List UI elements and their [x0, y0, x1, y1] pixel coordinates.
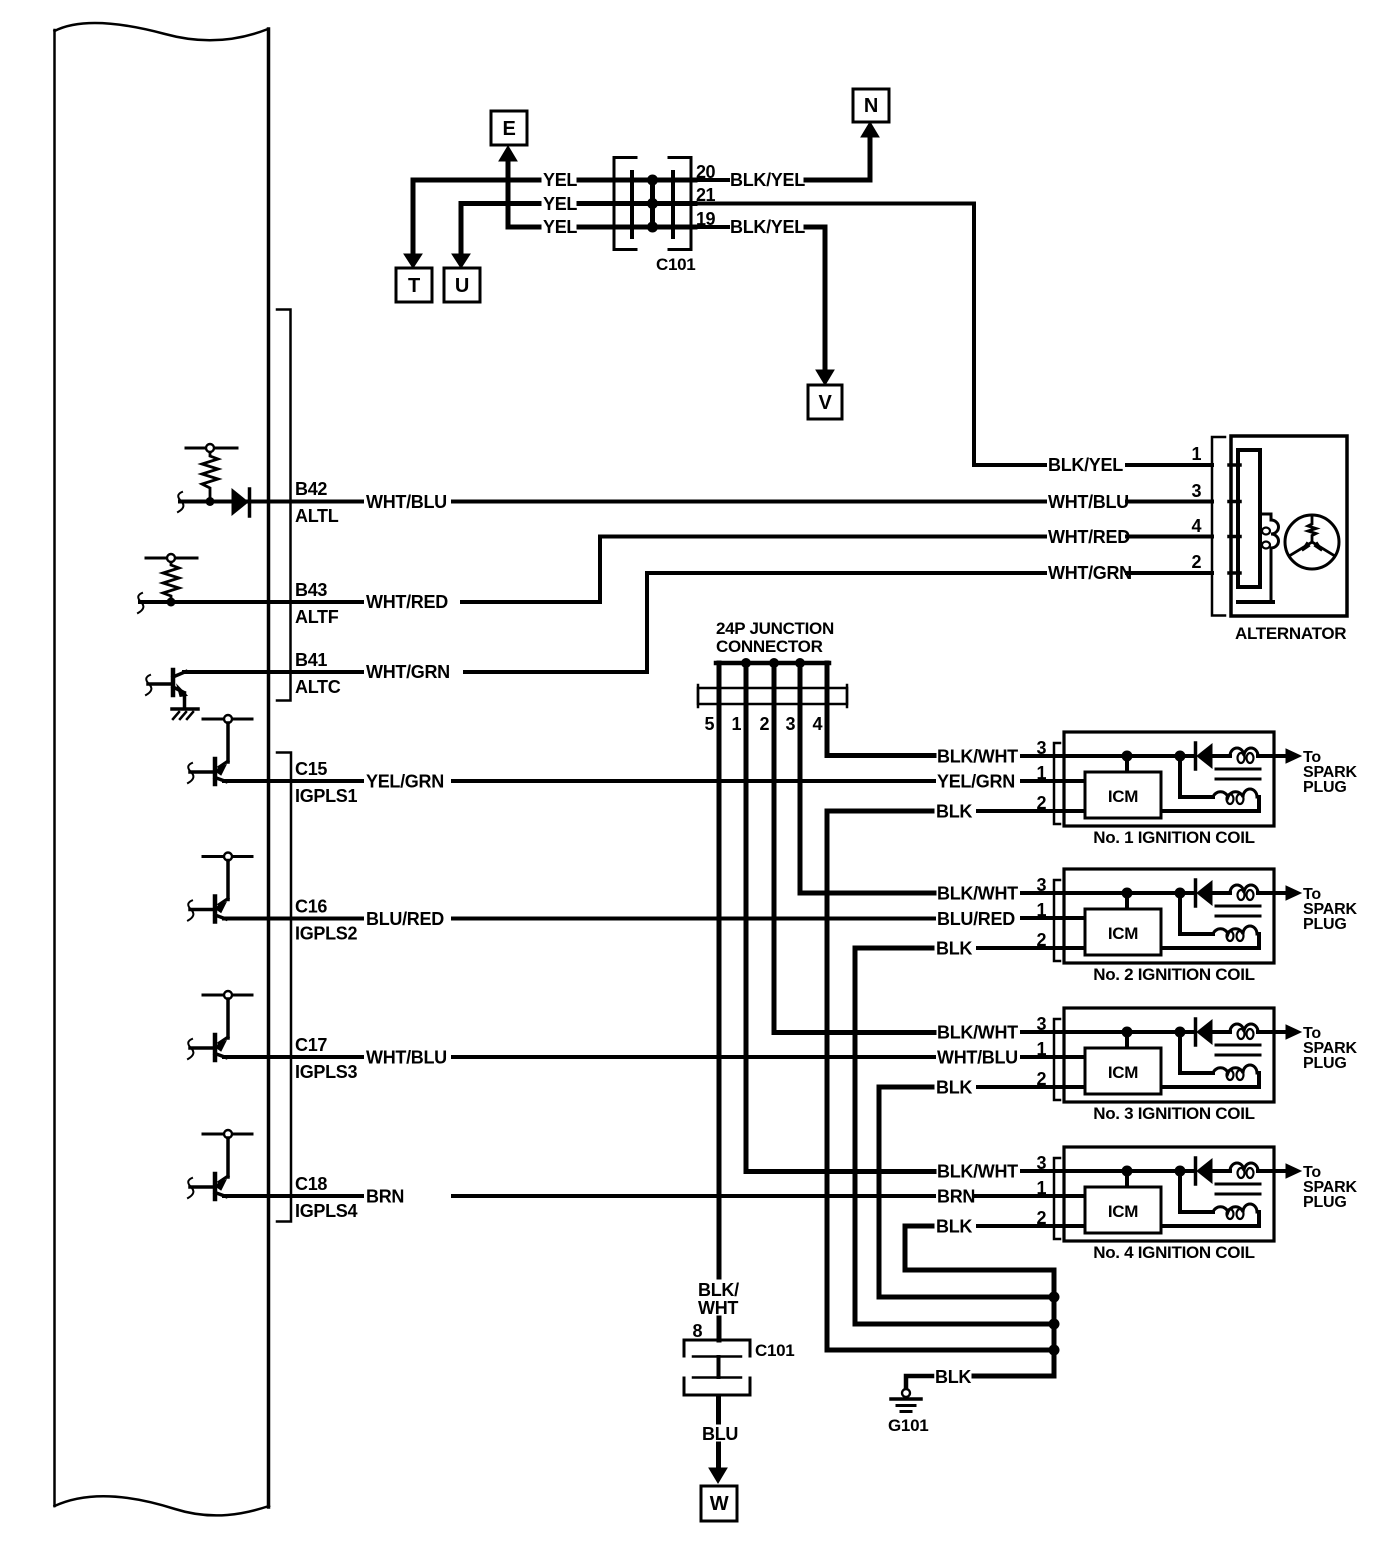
svg-text:No. 1 IGNITION COIL: No. 1 IGNITION COIL — [1093, 828, 1254, 847]
svg-text:BLK: BLK — [936, 1078, 972, 1098]
pin C17 IGPLS3 labels — [295, 1035, 358, 1082]
svg-text:BLK/: BLK/ — [698, 1280, 739, 1300]
connector N box — [853, 89, 889, 122]
svg-text:5: 5 — [704, 714, 714, 734]
24P JUNCTION CONNECTOR labels — [716, 619, 834, 656]
svg-text:BLU/RED: BLU/RED — [937, 909, 1015, 929]
arrow up into E — [499, 146, 517, 161]
ECM connector bracket C (C15-C18 group) — [277, 753, 291, 1222]
bus junction dots — [1049, 1292, 1060, 1303]
stator (three-phase) symbol — [1285, 515, 1339, 569]
svg-text:C18: C18 — [295, 1174, 327, 1194]
svg-text:No. 2 IGNITION COIL: No. 2 IGNITION COIL — [1093, 965, 1254, 984]
svg-text:YEL/GRN: YEL/GRN — [366, 772, 444, 792]
svg-text:24P JUNCTION: 24P JUNCTION — [716, 619, 834, 638]
svg-text:BLK/YEL: BLK/YEL — [730, 170, 805, 190]
svg-text:BLK/WHT: BLK/WHT — [937, 1162, 1018, 1182]
svg-text:C101: C101 — [656, 255, 695, 274]
ground bus vertical — [1052, 1270, 1057, 1376]
wire label BLK/WHT (junction pin 5 wire) — [698, 1280, 739, 1318]
wire YEL (pin 20 branch, to connector T) — [413, 180, 539, 257]
connector U box — [444, 268, 480, 302]
svg-text:CONNECTOR: CONNECTOR — [716, 637, 823, 656]
svg-text:3: 3 — [785, 714, 795, 734]
ECM module torn strip — [55, 23, 270, 1515]
svg-text:1: 1 — [1191, 444, 1201, 464]
svg-text:WHT/BLU: WHT/BLU — [937, 1048, 1018, 1068]
svg-text:C16: C16 — [295, 897, 327, 917]
transistor Q2 (C15 IGPLS1 driver, PNP) — [188, 715, 362, 784]
connector V box — [808, 385, 842, 419]
connector T box — [396, 268, 432, 302]
wire YEL/GRN long run to ignition coil pin 1 — [453, 779, 934, 783]
svg-text:C17: C17 — [295, 1035, 327, 1055]
pin 19 wire stub — [693, 225, 728, 229]
wire BLK/YEL down to connector V — [806, 227, 825, 370]
svg-text:3: 3 — [1191, 481, 1201, 501]
svg-text:4: 4 — [1191, 516, 1201, 536]
svg-text:8: 8 — [692, 1321, 702, 1341]
wire BLK return coil 3 — [879, 1087, 1054, 1297]
alternator pin numbers 1/3/4/2 — [1191, 444, 1201, 572]
connector C101 (engine harness, pins 20/21/19) — [614, 158, 695, 275]
wire YEL (pin 19 branch, to connector E) — [508, 159, 539, 227]
junction connector strip — [698, 685, 847, 707]
wire BLK/YEL to connector N — [806, 137, 870, 180]
svg-text:BLK/YEL: BLK/YEL — [730, 217, 805, 237]
ignition coil unit No.1 (with ICM) — [978, 732, 1357, 826]
wire BLK return coil 4 — [905, 1226, 1054, 1270]
wire BRN long run to ignition coil pin 1 — [453, 1194, 934, 1198]
pin C16 IGPLS2 labels — [295, 897, 358, 944]
svg-text:ALTF: ALTF — [295, 607, 339, 627]
svg-text:BLK: BLK — [936, 802, 972, 822]
transistor Q1 (B41 driver, NPN) — [146, 670, 187, 708]
svg-text:E: E — [502, 118, 515, 140]
wire WHT/GRN run with step up to alternator pin 2 — [465, 573, 1045, 672]
pin B42 ALTL labels — [295, 479, 339, 526]
svg-text:WHT/BLU: WHT/BLU — [1048, 492, 1129, 512]
junction wire 2 to No.3 coil — [774, 663, 934, 1033]
svg-text:2: 2 — [759, 714, 769, 734]
svg-text:BLK: BLK — [936, 939, 972, 959]
arrow down into V — [816, 370, 834, 385]
arrow up into N — [861, 122, 879, 137]
junction pin numbers 5 1 2 3 4 — [704, 714, 822, 734]
svg-text:ALTC: ALTC — [295, 677, 341, 697]
pin 20 wire stub — [693, 178, 728, 182]
transistor Q3 (C16 IGPLS2 driver, PNP) — [188, 853, 362, 922]
svg-text:ALTERNATOR: ALTERNATOR — [1235, 624, 1346, 643]
node junction dot B42 — [206, 497, 215, 506]
wire BLK return coil 1 — [827, 811, 1054, 1350]
pin B41 ALTC labels — [295, 650, 341, 697]
svg-text:C15: C15 — [295, 759, 327, 779]
svg-text:W: W — [710, 1493, 729, 1515]
arrow down into T — [404, 254, 422, 268]
wire WHT/BLU long run to alternator pin 3 — [453, 500, 1045, 504]
svg-text:No. 3 IGNITION COIL: No. 3 IGNITION COIL — [1093, 1104, 1254, 1123]
connector C101 (bottom, pin 8) — [684, 1340, 794, 1395]
svg-text:BLK/WHT: BLK/WHT — [937, 747, 1018, 767]
svg-text:BRN: BRN — [366, 1187, 404, 1207]
wire BLK to ground G101 — [974, 1374, 1054, 1379]
svg-text:BLK/WHT: BLK/WHT — [937, 1023, 1018, 1043]
arrow down into W — [709, 1468, 727, 1483]
svg-text:BLK/WHT: BLK/WHT — [937, 884, 1018, 904]
transistor Q4 (C17 IGPLS3 driver, PNP) — [188, 991, 362, 1060]
wire B42 left segment with break squiggle — [178, 492, 362, 512]
resistor (B42 pull-up) — [186, 444, 237, 499]
ignition coil unit No.2 (with ICM) — [978, 869, 1357, 963]
svg-text:U: U — [455, 275, 469, 297]
svg-text:WHT/BLU: WHT/BLU — [366, 492, 447, 512]
diode D1 on B42 wire — [232, 489, 250, 516]
junction wire 4 to No.1 coil — [827, 663, 934, 756]
svg-text:BLK: BLK — [936, 1217, 972, 1237]
svg-text:BLK: BLK — [935, 1367, 971, 1387]
svg-text:T: T — [408, 275, 420, 297]
svg-text:BLU: BLU — [702, 1424, 738, 1444]
svg-text:4: 4 — [812, 714, 822, 734]
svg-text:WHT/GRN: WHT/GRN — [366, 662, 450, 682]
svg-text:IGPLS3: IGPLS3 — [295, 1062, 358, 1082]
svg-text:IGPLS1: IGPLS1 — [295, 786, 358, 806]
ECM connector bracket B (B42/B43/B41 group) — [277, 310, 291, 701]
svg-text:IGPLS2: IGPLS2 — [295, 924, 358, 944]
junction bus bar — [716, 661, 829, 666]
svg-text:G101: G101 — [888, 1416, 928, 1435]
alternator internal pin stubs — [1229, 465, 1240, 573]
wire BRN stub (coil 4 pin 1, short label) — [976, 1194, 1026, 1198]
wire BLK return coil 2 — [855, 948, 1054, 1324]
wire BLU to connector W — [716, 1396, 721, 1422]
svg-text:No. 4 IGNITION COIL: No. 4 IGNITION COIL — [1093, 1243, 1254, 1262]
field (rotor) winding — [1238, 514, 1279, 602]
svg-text:WHT/RED: WHT/RED — [366, 592, 448, 612]
pin 21 wire BLK/YEL long run down to alternator pin 1 — [693, 204, 1045, 466]
svg-text:YEL/GRN: YEL/GRN — [937, 772, 1015, 792]
svg-text:IGPLS4: IGPLS4 — [295, 1201, 358, 1221]
wire WHT/BLU long run to ignition coil pin 1 — [453, 1055, 934, 1059]
wire BLU/RED long run to ignition coil pin 1 — [453, 917, 934, 921]
connector W box — [701, 1486, 737, 1521]
ignition coil unit No.3 (with ICM) — [978, 1008, 1357, 1102]
svg-text:YEL: YEL — [543, 170, 577, 190]
alternator connector bracket — [1212, 437, 1225, 616]
ground (chassis) at B41 emitter — [172, 709, 198, 719]
voltage regulator block — [1238, 450, 1260, 587]
svg-text:BLU/RED: BLU/RED — [366, 909, 444, 929]
svg-text:V: V — [818, 392, 832, 414]
ground G101 symbol — [891, 1389, 921, 1412]
node junction dot B43 — [167, 598, 176, 607]
pin B43 ALTF labels — [295, 580, 339, 627]
wire B43 left segment with break squiggle — [138, 593, 362, 613]
pin C15 IGPLS1 labels — [295, 759, 358, 806]
svg-text:1: 1 — [731, 714, 741, 734]
svg-text:BLK/YEL: BLK/YEL — [1048, 455, 1123, 475]
svg-text:B43: B43 — [295, 580, 327, 600]
junction wire 1 to No.4 coil — [746, 663, 934, 1172]
svg-text:YEL: YEL — [543, 194, 577, 214]
svg-text:C101: C101 — [755, 1341, 794, 1360]
svg-text:WHT/BLU: WHT/BLU — [366, 1048, 447, 1068]
svg-text:YEL: YEL — [543, 217, 577, 237]
YEL labels — [543, 170, 577, 237]
svg-text:ALTL: ALTL — [295, 506, 339, 526]
svg-text:N: N — [864, 95, 878, 117]
connector E box — [491, 111, 527, 145]
svg-text:BRN: BRN — [937, 1187, 975, 1207]
ignition coil unit No.4 (with ICM) — [978, 1147, 1357, 1241]
wire B41 collector to ECM edge — [184, 670, 362, 674]
junction bus dots — [741, 658, 751, 668]
svg-text:WHT: WHT — [698, 1298, 738, 1318]
YEL wire stubs into C101 — [579, 180, 695, 227]
wire WHT/RED run with step up to alternator pin 4 — [462, 537, 1045, 603]
svg-text:WHT/RED: WHT/RED — [1048, 527, 1130, 547]
svg-text:B41: B41 — [295, 650, 327, 670]
arrow down into U — [452, 254, 470, 268]
svg-text:B42: B42 — [295, 479, 327, 499]
transistor Q5 (C18 IGPLS4 driver, PNP) — [188, 1130, 362, 1199]
resistor (B43 pull-up) — [146, 554, 197, 600]
svg-text:WHT/GRN: WHT/GRN — [1048, 563, 1132, 583]
pin C18 IGPLS4 labels — [295, 1174, 358, 1221]
svg-text:2: 2 — [1191, 552, 1201, 572]
junction wire 3 to No.2 coil — [800, 663, 934, 893]
alternator box — [1231, 436, 1347, 616]
junction wire 5 down to C101 pin 8 — [717, 663, 722, 1340]
pin numbers 20 / 21 / 19 — [696, 162, 716, 229]
wire YEL (pin 21 branch, to connector U) — [461, 204, 539, 256]
